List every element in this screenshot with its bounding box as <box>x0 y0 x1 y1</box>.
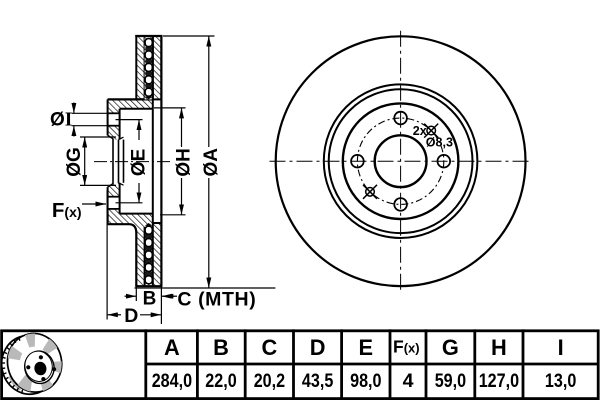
icon hub ring top face <box>22 349 55 384</box>
bottom outline: interior surface line <box>120 213 153 215</box>
svg-text:59,0: 59,0 <box>435 370 467 392</box>
svg-text:D: D <box>124 305 138 327</box>
svg-text:I: I <box>558 335 564 360</box>
left plate hatched top <box>136 36 144 99</box>
dim ØA extension lines <box>163 35 215 37</box>
icon bore <box>33 361 48 377</box>
table header divider <box>146 363 598 366</box>
flange above hole bottom <box>108 183 120 197</box>
bottom outline: band bottom edge <box>108 223 129 225</box>
centerline horizontal <box>270 160 532 162</box>
svg-text:20,2: 20,2 <box>254 370 286 392</box>
svg-text:C (MTH): C (MTH) <box>177 288 256 310</box>
F(x) arrow <box>82 203 106 205</box>
svg-text:A: A <box>164 335 180 360</box>
cylinder inner surface top <box>120 108 153 110</box>
dim ØI extension lines <box>72 112 120 114</box>
bottom outline: plate left edge <box>135 233 137 286</box>
svg-text:2x: 2x <box>413 124 427 138</box>
vent gap knots top <box>145 47 152 89</box>
flange right face top <box>119 109 121 140</box>
bottom half merged hatched region (band + fillet + plates) <box>108 214 162 287</box>
dim ØA arrows <box>208 36 210 147</box>
bottom outline: fillet <box>129 224 136 233</box>
friction inner circle inner <box>329 89 473 233</box>
svg-text:ØA: ØA <box>201 148 222 177</box>
ring bottom edge <box>135 285 162 287</box>
dim D line and arrows <box>107 314 121 316</box>
icon gray sectors on face <box>8 333 62 391</box>
dim D extension line <box>106 190 108 320</box>
bore chamfer diagonals <box>108 135 113 139</box>
vent gap cells bottom <box>145 226 152 284</box>
svg-text:ØG: ØG <box>64 147 85 177</box>
svg-text:4: 4 <box>403 370 414 392</box>
right plate hatched top <box>153 36 162 99</box>
svg-text:B: B <box>143 288 157 309</box>
svg-text:43,5: 43,5 <box>302 370 334 392</box>
icon face ellipse <box>2 328 67 397</box>
flange below hole top <box>108 126 120 140</box>
dim B arrows outside <box>125 295 137 297</box>
dim ØH extension lines <box>154 107 186 109</box>
svg-text:D: D <box>310 335 326 360</box>
icon rim vents <box>2 337 23 393</box>
friction inner circle outer <box>324 84 478 238</box>
svg-text:ØI: ØI <box>50 110 72 131</box>
icon rim back ellipse <box>0 331 61 400</box>
ring top edge <box>135 35 162 37</box>
svg-text:ØE: ØE <box>129 149 150 176</box>
svg-text:H: H <box>491 335 507 360</box>
svg-text:127,0: 127,0 <box>479 370 520 392</box>
vent V tip top <box>145 97 153 100</box>
dim ØH arrows <box>181 108 183 147</box>
bottom outline: right plate top edge <box>153 222 162 224</box>
vent gap cells top <box>145 39 152 97</box>
vent V tip bottom <box>145 223 153 226</box>
svg-text:284,0: 284,0 <box>152 370 193 392</box>
hat inner wall line <box>152 36 154 286</box>
hub circle <box>343 103 459 219</box>
flange right face bottom <box>119 183 121 214</box>
svg-text:22,0: 22,0 <box>205 370 237 392</box>
table values <box>152 370 577 392</box>
axis centerline dashes of section <box>94 161 170 163</box>
flange bottom band left edge <box>107 214 109 225</box>
vent gap knots bottom <box>145 234 152 276</box>
svg-text:B: B <box>213 335 229 360</box>
svg-text:C: C <box>262 335 278 360</box>
bottom outline: gap left edge <box>144 227 146 286</box>
bolt hole bottom <box>394 198 407 211</box>
small hole upper right with X <box>424 124 438 138</box>
svg-text:G: G <box>442 335 459 360</box>
outboard face line <box>160 36 162 286</box>
bolt hole top <box>394 112 407 125</box>
svg-text:13,0: 13,0 <box>545 370 577 392</box>
outer circle <box>276 36 526 286</box>
bolt hole left <box>351 155 364 168</box>
dim B extension line <box>135 287 137 301</box>
table vertical lines <box>146 329 523 398</box>
svg-text:Ø8,3: Ø8,3 <box>426 136 453 150</box>
icon hub ring outer <box>22 348 57 386</box>
svg-text:E: E <box>359 335 374 360</box>
bore chamfer lines <box>112 139 114 184</box>
dim ØG line with arrows <box>84 137 86 161</box>
small hole lower left with X <box>363 185 377 199</box>
dim ØG extension lines <box>80 136 116 138</box>
svg-text:ØH: ØH <box>174 148 195 177</box>
bolt hole edges thick <box>108 113 120 209</box>
dim C arrow <box>163 295 177 297</box>
svg-text:98,0: 98,0 <box>350 370 382 392</box>
icon bolt holes <box>39 355 43 359</box>
bolt hole right <box>438 155 451 168</box>
dim ØI arrows <box>73 103 75 114</box>
bolt circle dashed <box>357 118 443 204</box>
center bore circle <box>375 135 427 187</box>
table frame <box>2 331 599 399</box>
flange above hole top <box>108 109 120 114</box>
flange top band hatched <box>108 99 153 108</box>
dim ØE extension lines <box>116 119 143 121</box>
icon rim gray shade <box>9 372 26 391</box>
vent gap hatched column top <box>145 36 153 99</box>
flange below hole bottom <box>108 209 120 214</box>
dim ØE arrows <box>138 120 140 140</box>
flange top surface line <box>108 98 153 100</box>
centerline vertical <box>400 31 402 292</box>
table headers <box>164 335 564 360</box>
flange left face <box>107 99 109 135</box>
